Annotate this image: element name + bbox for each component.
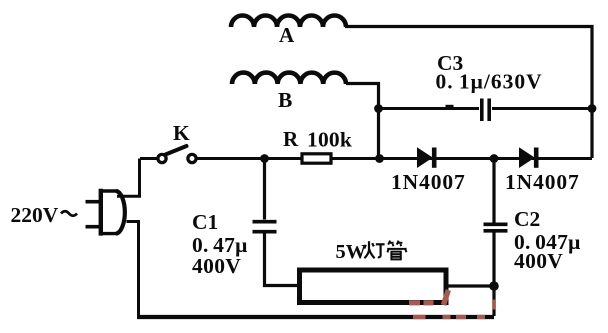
diode D2 1N4007 — [519, 147, 536, 168]
wire plug upper contact to switch — [117, 159, 140, 197]
svg-text:0. 1μ/630V: 0. 1μ/630V — [436, 70, 543, 94]
svg-text:R: R — [283, 127, 299, 151]
lamp tube box — [300, 270, 447, 303]
wire from A to top-right corner and down right side — [345, 27, 592, 159]
main wire left segment — [140, 157, 158, 160]
plug prongs — [86, 202, 100, 227]
AC tilde symbol — [61, 211, 77, 216]
svg-text:220V: 220V — [11, 203, 59, 227]
svg-text:K: K — [173, 121, 190, 145]
wire C3 left — [379, 107, 480, 110]
capacitor C2 — [484, 224, 508, 231]
inductor A — [231, 16, 346, 27]
resistor R — [302, 154, 331, 163]
node C1 top junction — [260, 154, 269, 163]
svg-text:1N4007: 1N4007 — [391, 170, 466, 194]
svg-text:100k: 100k — [307, 128, 352, 152]
svg-text:1N4007: 1N4007 — [505, 170, 580, 194]
wire C2 bottom — [492, 233, 495, 317]
bottom wire — [137, 315, 494, 319]
wire C1 bottom to lamp — [265, 234, 299, 286]
svg-text:5W: 5W — [336, 241, 367, 263]
capacitor C1 — [253, 222, 277, 232]
wire C1 vertical top — [263, 159, 266, 220]
plug body — [99, 189, 125, 236]
node B/C3 junction — [374, 104, 383, 113]
wire C3 right — [492, 107, 592, 110]
svg-text:C1: C1 — [192, 210, 218, 234]
switch K — [158, 146, 196, 163]
hanzi GUAN (tube) — [387, 241, 406, 260]
main wire from switch to right end — [196, 157, 592, 160]
diode D1 1N4007 — [417, 147, 434, 168]
inductor B — [232, 73, 346, 84]
wire plug lower contact down left side — [127, 222, 139, 317]
svg-text:400V: 400V — [514, 249, 563, 273]
wire lamp right to C2 node — [448, 284, 494, 287]
svg-text:400V: 400V — [192, 254, 241, 278]
svg-text:B: B — [278, 88, 292, 112]
red artifact: lamp bottom edge dashes — [409, 300, 420, 305]
svg-text:C2: C2 — [514, 207, 540, 231]
red artifact: lamp right border — [444, 290, 449, 305]
node C2 bottom junction — [489, 281, 499, 291]
node B vertical / main wire junction — [375, 154, 384, 163]
wire from B down to main line — [346, 84, 379, 159]
red artifact: C2 lower wire — [492, 300, 496, 310]
svg-text:A: A — [279, 23, 295, 47]
node between diodes / C2 top junction — [490, 154, 499, 163]
hanzi DENG (lamp) — [364, 241, 384, 258]
red artifact: bottom wire dashes — [413, 315, 485, 319]
capacitor C3 — [482, 99, 489, 122]
wire C2 vertical top — [492, 159, 495, 223]
node C3 right junction — [588, 104, 597, 113]
